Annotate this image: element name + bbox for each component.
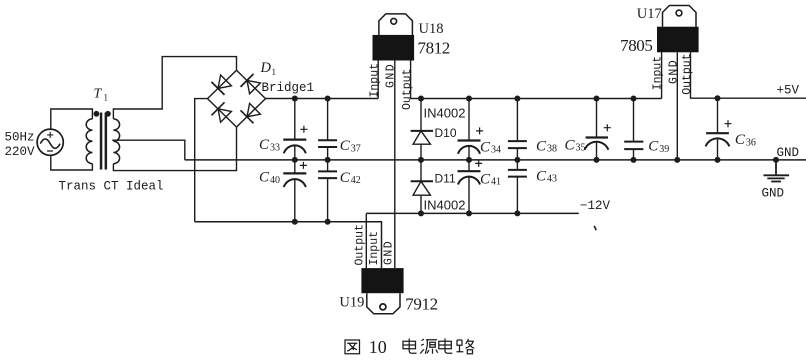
label C35	[565, 137, 586, 153]
svg-text:C: C	[536, 138, 547, 154]
voltage regulator U17 tab	[663, 6, 697, 27]
svg-text:C: C	[480, 171, 491, 187]
node C42 bottom	[325, 219, 331, 225]
voltage regulator U17 tab hole	[676, 10, 682, 16]
pin U19 output wire	[365, 213, 367, 268]
transformer T1 secondary winding	[113, 119, 119, 164]
svg-text:39: 39	[659, 144, 669, 155]
label T1	[94, 87, 109, 103]
svg-text:7805: 7805	[620, 36, 652, 55]
bridge diode top-left	[212, 75, 232, 95]
node C34 top	[466, 96, 472, 102]
wire mid rail GND	[185, 159, 806, 161]
voltage regulator U18 tab	[379, 14, 413, 35]
capacitor C34	[458, 99, 484, 160]
pin U17 output	[691, 52, 806, 98]
pin U17 gnd	[676, 52, 678, 160]
svg-text:Output: Output	[354, 224, 367, 265]
capacitor C37	[318, 99, 337, 160]
voltage regulator U19 tab	[367, 293, 400, 314]
wire -12V rail	[366, 212, 579, 214]
wire secondary center tap to mid rail	[112, 140, 185, 160]
voltage regulator U19 body	[361, 268, 403, 293]
node U17 gnd	[674, 157, 680, 163]
voltage regulator U18 tab hole	[391, 18, 397, 24]
node C40 bottom	[292, 219, 298, 225]
svg-text:U18: U18	[419, 21, 444, 37]
svg-text:GND: GND	[385, 63, 398, 88]
svg-text:Input: Input	[368, 63, 381, 98]
ground symbol	[764, 160, 790, 182]
transformer T1 core	[100, 113, 107, 170]
pin U18 gnd wire down to U19 gnd	[394, 61, 396, 269]
node D11 bottom	[418, 210, 424, 216]
wire rail bridge to U18 input	[266, 98, 379, 100]
svg-text:−12V: −12V	[580, 199, 611, 213]
label C33	[259, 137, 280, 153]
label D1	[260, 60, 277, 77]
node C33 bottom	[292, 157, 298, 163]
hanzi lu	[457, 339, 475, 354]
wire secondary top to bridge top	[113, 57, 236, 119]
node C36 bottom	[715, 157, 721, 163]
transformer phase dot left	[94, 111, 100, 117]
svg-text:Bridge1: Bridge1	[262, 81, 315, 95]
wire lower rail C40 C42 to U19 input	[195, 222, 382, 268]
svg-text:34: 34	[491, 145, 501, 156]
svg-text:Input: Input	[368, 231, 381, 266]
node C37 bottom	[325, 157, 331, 163]
wire ac top to primary	[51, 109, 93, 129]
node C41 bottom	[466, 210, 472, 216]
svg-text:10: 10	[369, 337, 387, 357]
svg-text:50Hz: 50Hz	[5, 130, 35, 144]
label C40	[259, 170, 280, 186]
capacitor C39	[624, 99, 643, 160]
svg-text:GND: GND	[777, 146, 800, 160]
node C36 top	[715, 95, 721, 101]
capacitor C41	[458, 160, 483, 214]
svg-text:Output: Output	[401, 69, 414, 110]
hanzi yuan	[420, 339, 438, 354]
pin U17 input	[661, 52, 663, 98]
voltage regulator U17 body	[657, 27, 699, 53]
bridge diode bottom-left	[212, 102, 232, 122]
transformer T1 primary winding	[86, 119, 92, 164]
svg-text:Output: Output	[681, 53, 694, 94]
node C37 top	[325, 96, 331, 102]
transformer phase dot right	[105, 111, 111, 117]
svg-text:GND: GND	[383, 240, 396, 265]
svg-text:38: 38	[547, 144, 557, 155]
node C43 bottom	[514, 210, 520, 216]
wire rail U18 output to U17 input	[421, 98, 662, 100]
svg-text:C: C	[480, 139, 491, 155]
svg-text:42: 42	[351, 175, 361, 186]
svg-text:T: T	[94, 87, 103, 102]
svg-text:33: 33	[270, 142, 280, 153]
bridge diode top-right	[241, 74, 261, 94]
svg-text:C: C	[340, 138, 351, 154]
label C38	[536, 138, 557, 154]
svg-text:D10: D10	[435, 126, 457, 140]
svg-text:C: C	[340, 170, 351, 186]
label C42	[340, 170, 361, 186]
hanzi dian 2	[439, 339, 453, 354]
capacitor C36	[706, 98, 732, 160]
node C35 bottom	[594, 157, 600, 163]
svg-text:C: C	[259, 170, 270, 186]
capacitor C38	[508, 99, 527, 160]
svg-text:C: C	[565, 137, 576, 153]
label C43	[536, 168, 557, 184]
svg-text:7912: 7912	[405, 295, 437, 314]
svg-text:Trans CT Ideal: Trans CT Ideal	[59, 180, 164, 194]
pin U18 output	[411, 61, 421, 99]
diode D11 1N4002	[411, 160, 433, 214]
svg-text:40: 40	[270, 175, 280, 186]
hanzi dian 1	[403, 339, 417, 354]
node C39 bottom	[631, 157, 637, 163]
label C39	[648, 139, 669, 155]
stray tick mark	[594, 226, 596, 230]
label C37	[340, 138, 361, 154]
voltage regulator U18 body	[373, 35, 415, 61]
wire secondary bottom to bridge bottom	[113, 127, 236, 171]
capacitor C35	[585, 99, 611, 160]
node C38 bottom	[514, 157, 520, 163]
node D10 bottom	[418, 157, 424, 163]
svg-text:36: 36	[746, 137, 756, 148]
ac source 50Hz 220V	[37, 129, 63, 155]
voltage regulator U19 tab hole	[380, 304, 386, 310]
caption: 图 10 电源电路	[345, 337, 474, 357]
label C36	[735, 132, 756, 148]
node ground stub	[773, 157, 779, 163]
node C34 bottom	[466, 157, 472, 163]
svg-text:U19: U19	[339, 295, 364, 311]
svg-text:C: C	[536, 168, 547, 184]
node C35 top	[594, 96, 600, 102]
svg-text:IN4002: IN4002	[424, 106, 466, 121]
hanzi tu	[345, 340, 360, 354]
svg-text:7812: 7812	[418, 39, 450, 58]
capacitor C40	[283, 160, 307, 222]
svg-text:41: 41	[491, 177, 501, 188]
svg-text:1: 1	[272, 67, 277, 77]
node D10 top	[418, 96, 424, 102]
capacitor C43	[508, 160, 527, 214]
node C38 top	[514, 96, 520, 102]
svg-text:37: 37	[351, 143, 361, 154]
svg-text:+5V: +5V	[777, 83, 800, 97]
svg-text:D11: D11	[435, 172, 456, 186]
bridge diode bottom-right	[241, 103, 261, 123]
svg-text:U17: U17	[637, 6, 662, 22]
label C34	[480, 139, 501, 155]
svg-text:Input: Input	[652, 56, 665, 91]
svg-text:35: 35	[576, 143, 586, 154]
node C33 top	[292, 96, 298, 102]
svg-text:220V: 220V	[5, 145, 36, 159]
node C39 top	[631, 96, 637, 102]
bridge rectifier D1 diamond	[208, 70, 266, 127]
svg-text:D: D	[260, 60, 272, 76]
svg-text:C: C	[735, 132, 746, 148]
capacitor C33	[283, 99, 307, 160]
pin U18 input	[377, 61, 379, 99]
svg-text:C: C	[259, 137, 270, 153]
svg-text:GND: GND	[762, 186, 785, 200]
diode D10 1N4002	[411, 99, 433, 160]
svg-text:C: C	[648, 139, 659, 155]
wire bridge left corner to lower rail	[195, 99, 208, 222]
capacitor C42	[318, 160, 337, 222]
svg-text:1: 1	[104, 93, 109, 103]
wire ac bottom to primary	[51, 155, 93, 170]
svg-text:43: 43	[547, 174, 557, 185]
label C41	[480, 171, 501, 187]
svg-text:GND: GND	[667, 59, 680, 84]
svg-text:IN4002: IN4002	[424, 198, 466, 213]
